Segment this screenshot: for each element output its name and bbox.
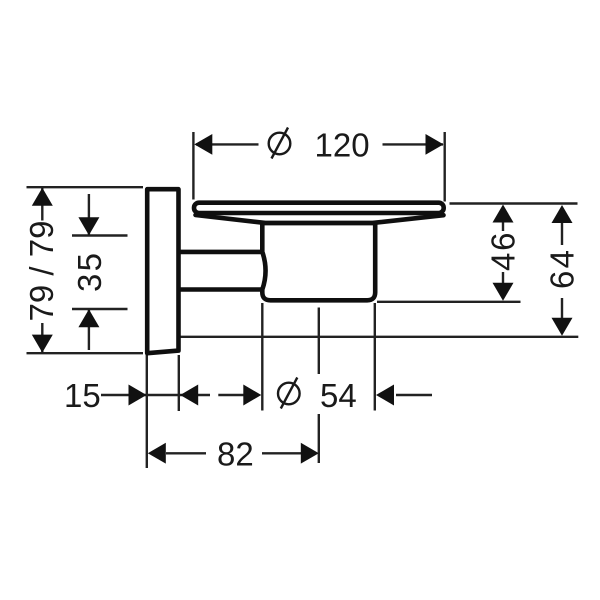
svg-text:15: 15 [64,377,101,414]
svg-text:82: 82 [217,435,254,472]
svg-text:54: 54 [320,377,357,414]
svg-text:35: 35 [71,251,108,292]
svg-text:79 / 79: 79 / 79 [23,221,60,322]
svg-text:120: 120 [315,127,370,164]
svg-text:64: 64 [544,248,581,289]
svg-text:46: 46 [485,231,522,271]
